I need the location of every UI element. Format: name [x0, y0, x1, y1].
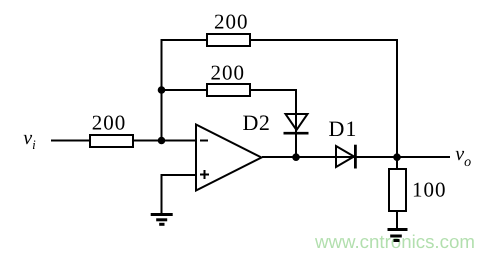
svg-text:D1: D1: [329, 116, 358, 141]
svg-text:200: 200: [211, 61, 246, 85]
svg-text:D2: D2: [243, 110, 271, 135]
svg-text:100: 100: [412, 178, 447, 202]
svg-text:200: 200: [92, 111, 127, 135]
svg-text:200: 200: [214, 10, 249, 34]
